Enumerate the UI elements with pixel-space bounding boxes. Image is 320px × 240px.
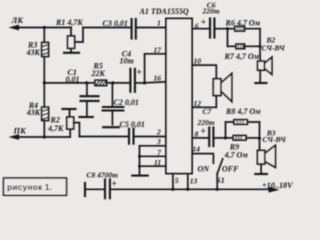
svg-text:R8 4,7 Ом: R8 4,7 Ом	[225, 107, 261, 116]
svg-text:3: 3	[156, 137, 161, 146]
ground under C2	[103, 126, 119, 128]
node junction pin 13 / supply	[186, 188, 189, 191]
node junction ПК/R4	[43, 135, 46, 138]
ground under C1	[80, 116, 93, 118]
svg-text:6: 6	[195, 22, 199, 31]
wire pin 13 stem	[187, 174, 189, 190]
svg-text:10m: 10m	[120, 56, 134, 65]
capacitor C7 220m	[209, 128, 213, 147]
node junction pin11 stem	[138, 165, 141, 168]
ground under R1	[64, 52, 79, 54]
wire pin 17	[145, 53, 166, 55]
node junction S1 / supply	[216, 188, 219, 191]
wire pin 12	[192, 106, 216, 108]
resistor R5 22К	[95, 80, 107, 85]
svg-text:5: 5	[175, 176, 179, 185]
node junction ЛК/R3	[43, 26, 46, 29]
wire pin 8	[192, 137, 209, 139]
wire left bus vertical	[43, 28, 45, 138]
node junction C1	[85, 81, 88, 84]
wire C1 row from bus to R5	[44, 82, 95, 84]
svg-text:22К: 22К	[91, 69, 106, 78]
svg-text:СЧ-ВЧ: СЧ-ВЧ	[262, 43, 286, 52]
svg-text:СЧ-ВЧ: СЧ-ВЧ	[263, 135, 287, 144]
speaker B3 СЧ-ВЧ	[257, 138, 275, 174]
resistor R6 4,7 Ом	[228, 26, 261, 31]
svg-text:1: 1	[157, 19, 161, 28]
node junction B2 feed	[258, 45, 261, 48]
svg-text:C3 0,01: C3 0,01	[103, 19, 128, 28]
svg-text:14: 14	[192, 145, 200, 154]
capacitor C2 0,01	[103, 83, 124, 125]
svg-text:+10..18V: +10..18V	[262, 181, 294, 190]
capacitor C1 0,01	[81, 83, 99, 116]
ground under B3	[255, 173, 267, 175]
node junction bus / C1 row	[43, 81, 46, 84]
svg-text:R1 4,7К: R1 4,7К	[55, 18, 83, 27]
potentiometer R2 4,7К	[67, 109, 80, 137]
wire ground stem pins 3-7-11	[139, 146, 141, 175]
capacitor C3 0,01	[132, 19, 136, 39]
svg-text:C5 0,01: C5 0,01	[120, 120, 145, 129]
svg-text:C8 4700m: C8 4700m	[87, 170, 119, 179]
wire R6 right vertical	[259, 29, 261, 47]
wire pin 5 stem	[172, 174, 174, 190]
svg-text:0,01: 0,01	[66, 75, 80, 84]
wire C5 to pin 2	[134, 136, 167, 138]
wire C4 to junction	[135, 82, 145, 84]
wire supply rail	[110, 188, 270, 190]
wire R8R9 left vertical	[225, 122, 227, 138]
wire pin 3	[140, 145, 167, 147]
svg-text:R6 4,7 Ом: R6 4,7 Ом	[225, 18, 261, 27]
capacitor C8 4700m	[105, 180, 110, 199]
svg-text:OFF: OFF	[222, 164, 239, 173]
resistor R9 4,7 Ом	[226, 136, 260, 141]
svg-text:A1 TDA1555Q: A1 TDA1555Q	[139, 7, 189, 16]
svg-text:10: 10	[194, 57, 202, 66]
wire pin 11	[140, 165, 167, 167]
speaker B1	[213, 74, 232, 108]
node junction pin7 stem	[138, 155, 141, 158]
svg-text:ON: ON	[198, 164, 211, 173]
svg-text:7: 7	[157, 148, 161, 157]
resistor R7 4,7 Ом	[228, 44, 261, 49]
node junction C2	[111, 81, 114, 84]
label frame рисунок 1.	[4, 178, 67, 195]
wire C3 to pin 1	[136, 27, 166, 29]
svg-text:8: 8	[195, 129, 199, 138]
wire pin 10	[192, 65, 216, 79]
svg-text:220m: 220m	[197, 118, 215, 127]
capacitor C4 10m	[130, 69, 135, 92]
node junction R8/R9 left	[224, 136, 227, 139]
svg-text:+: +	[201, 18, 206, 28]
svg-text:220m: 220m	[202, 6, 220, 15]
potentiometer R1 4,7К	[68, 28, 83, 53]
resistor R8 4,7 Ом	[226, 120, 260, 125]
wire R8 right vertical	[259, 122, 261, 138]
node junction B3 feed	[258, 137, 261, 140]
wire pin16/17 tie vertical	[144, 54, 146, 83]
wire ЛК input line with arrow	[17, 27, 44, 29]
node junction R6/R7 left	[226, 27, 229, 30]
wire S1 to supply	[216, 174, 218, 190]
svg-text:R7 4,7 Ом: R7 4,7 Ом	[224, 52, 260, 61]
svg-text:13: 13	[190, 176, 198, 185]
op-amp / IC A1 TDA1555Q body	[166, 19, 192, 174]
switch S1 blade	[217, 159, 222, 174]
svg-text:16: 16	[154, 74, 162, 83]
svg-text:2: 2	[156, 127, 161, 136]
wire pin 14	[192, 154, 213, 164]
wire R6R7 left vertical	[227, 29, 229, 47]
svg-text:C2 0,01: C2 0,01	[114, 98, 139, 107]
resistor R3 43K	[42, 43, 49, 57]
capacitor C6 220m	[210, 19, 214, 38]
svg-text:S1: S1	[216, 176, 224, 185]
wire ЛК row to R1	[44, 27, 71, 29]
wire ПК input line with arrow	[17, 136, 70, 138]
svg-text:11: 11	[154, 158, 161, 167]
svg-text:рисунок 1.: рисунок 1.	[7, 182, 52, 192]
ground under B2	[255, 82, 266, 84]
capacitor C5 0,01	[129, 129, 134, 144]
svg-text:43К: 43К	[26, 48, 41, 57]
wire R1 wiper to C3	[83, 27, 131, 29]
ground above R2	[63, 108, 76, 110]
wire C7 to R9 node	[213, 137, 225, 139]
svg-text:4,7 Ом: 4,7 Ом	[224, 150, 249, 159]
svg-text:4,7К: 4,7К	[47, 124, 64, 133]
wire C8 left	[85, 188, 105, 190]
svg-text:+: +	[137, 68, 142, 78]
svg-text:C7: C7	[203, 107, 212, 116]
speaker B2 СЧ-ВЧ	[258, 46, 272, 82]
terminal C8 left	[84, 183, 86, 196]
node junction C4/pin16	[143, 81, 146, 84]
wire C6 to R6 node	[214, 28, 227, 30]
svg-text:12: 12	[194, 99, 202, 108]
svg-text:ПК: ПК	[13, 126, 28, 136]
svg-text:ЛК: ЛК	[11, 15, 25, 25]
wire pin 6	[192, 28, 210, 30]
wire pin 7	[140, 155, 167, 157]
svg-text:+: +	[201, 127, 206, 137]
wire R5 to C4	[107, 82, 131, 84]
wire R2 wiper to C5	[79, 136, 128, 138]
svg-text:+: +	[112, 180, 117, 190]
node junction pin 5 / supply	[171, 188, 174, 191]
resistor R4 43K	[42, 107, 49, 120]
ground pins 3-7-11	[132, 175, 148, 177]
svg-text:43К: 43К	[26, 108, 41, 117]
svg-text:17: 17	[154, 46, 162, 55]
wire pin 16	[145, 82, 166, 83]
